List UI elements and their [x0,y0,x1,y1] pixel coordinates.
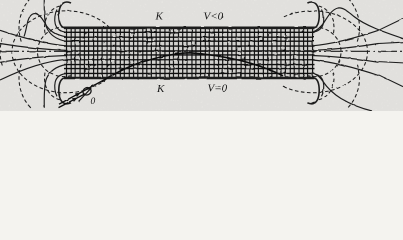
axis dash-dot symmetry line [0,50,403,52]
field lines: vertical mesh [67,28,313,78]
fan wrap 5 lb [55,74,66,97]
fan line 1 rb [313,56,379,63]
fan line 3 lt [44,0,66,41]
fan line 2 rt [313,30,379,46]
dashed edge arc r44 bottom-right [348,63,359,107]
grid K top plate (V<0) [64,26,315,29]
fan line 1 lt [0,44,66,51]
fan line 3 lb [44,65,66,108]
fan line 1 lb [0,56,66,63]
dashed edge arc r44 bottom-left [19,63,30,107]
label phi0 [79,85,95,102]
dashed edge arc r20 top-left [45,6,60,35]
fan wrap 5 rt [313,10,324,33]
fan line 2 left-bottom [0,59,66,80]
fan wrap 4 lt [24,14,66,37]
dashed end loop outer left [12,11,110,93]
dashed edge arc r44 top-right [348,0,359,43]
dashed edge arc r44 top-left [19,0,30,43]
plate end curl bottom-left [59,78,71,104]
fan line 2 rb [313,60,379,76]
fan tails to right edge [379,19,403,87]
svg-text:V<0: V<0 [204,10,224,22]
dashed edge arc r20 bottom-right [319,71,334,100]
dashed end loop outer right [283,11,367,93]
fan wrap 5 rb [313,74,324,97]
arrowhead on ray2 [72,98,78,102]
fan line 2 lt [0,30,66,46]
equipotentials: horizontal mesh rows [64,32,315,73]
dashed end loop inner right [308,27,341,77]
dashed edge arc r20 top-right [319,6,334,35]
fringe spiral right-bottom [313,73,373,111]
svg-text:0: 0 [91,97,96,107]
svg-text:K: K [155,11,164,23]
dashed far-left edge arc [0,38,3,66]
plate end curl bottom-right [307,78,319,104]
svg-text:V=0: V=0 [208,82,228,94]
electron trajectory parabola [109,53,284,78]
fringe spiral right-top [313,8,403,39]
arrowhead on ray1 [75,93,81,97]
incident ray 2 short [59,94,86,108]
dashed edge arc r20 bottom-left [45,71,60,100]
incident ray 1 [59,78,109,105]
plate end curl top-left [59,2,71,28]
grid K bottom plate (V=0) [64,77,315,80]
svg-text:K: K [156,83,165,95]
field region tint [64,28,315,78]
fan wrap 5 lt [55,10,66,33]
dashed end loop inner left [38,27,71,77]
plate end curl top-right [307,2,319,28]
fan line 1 rt [313,44,379,51]
